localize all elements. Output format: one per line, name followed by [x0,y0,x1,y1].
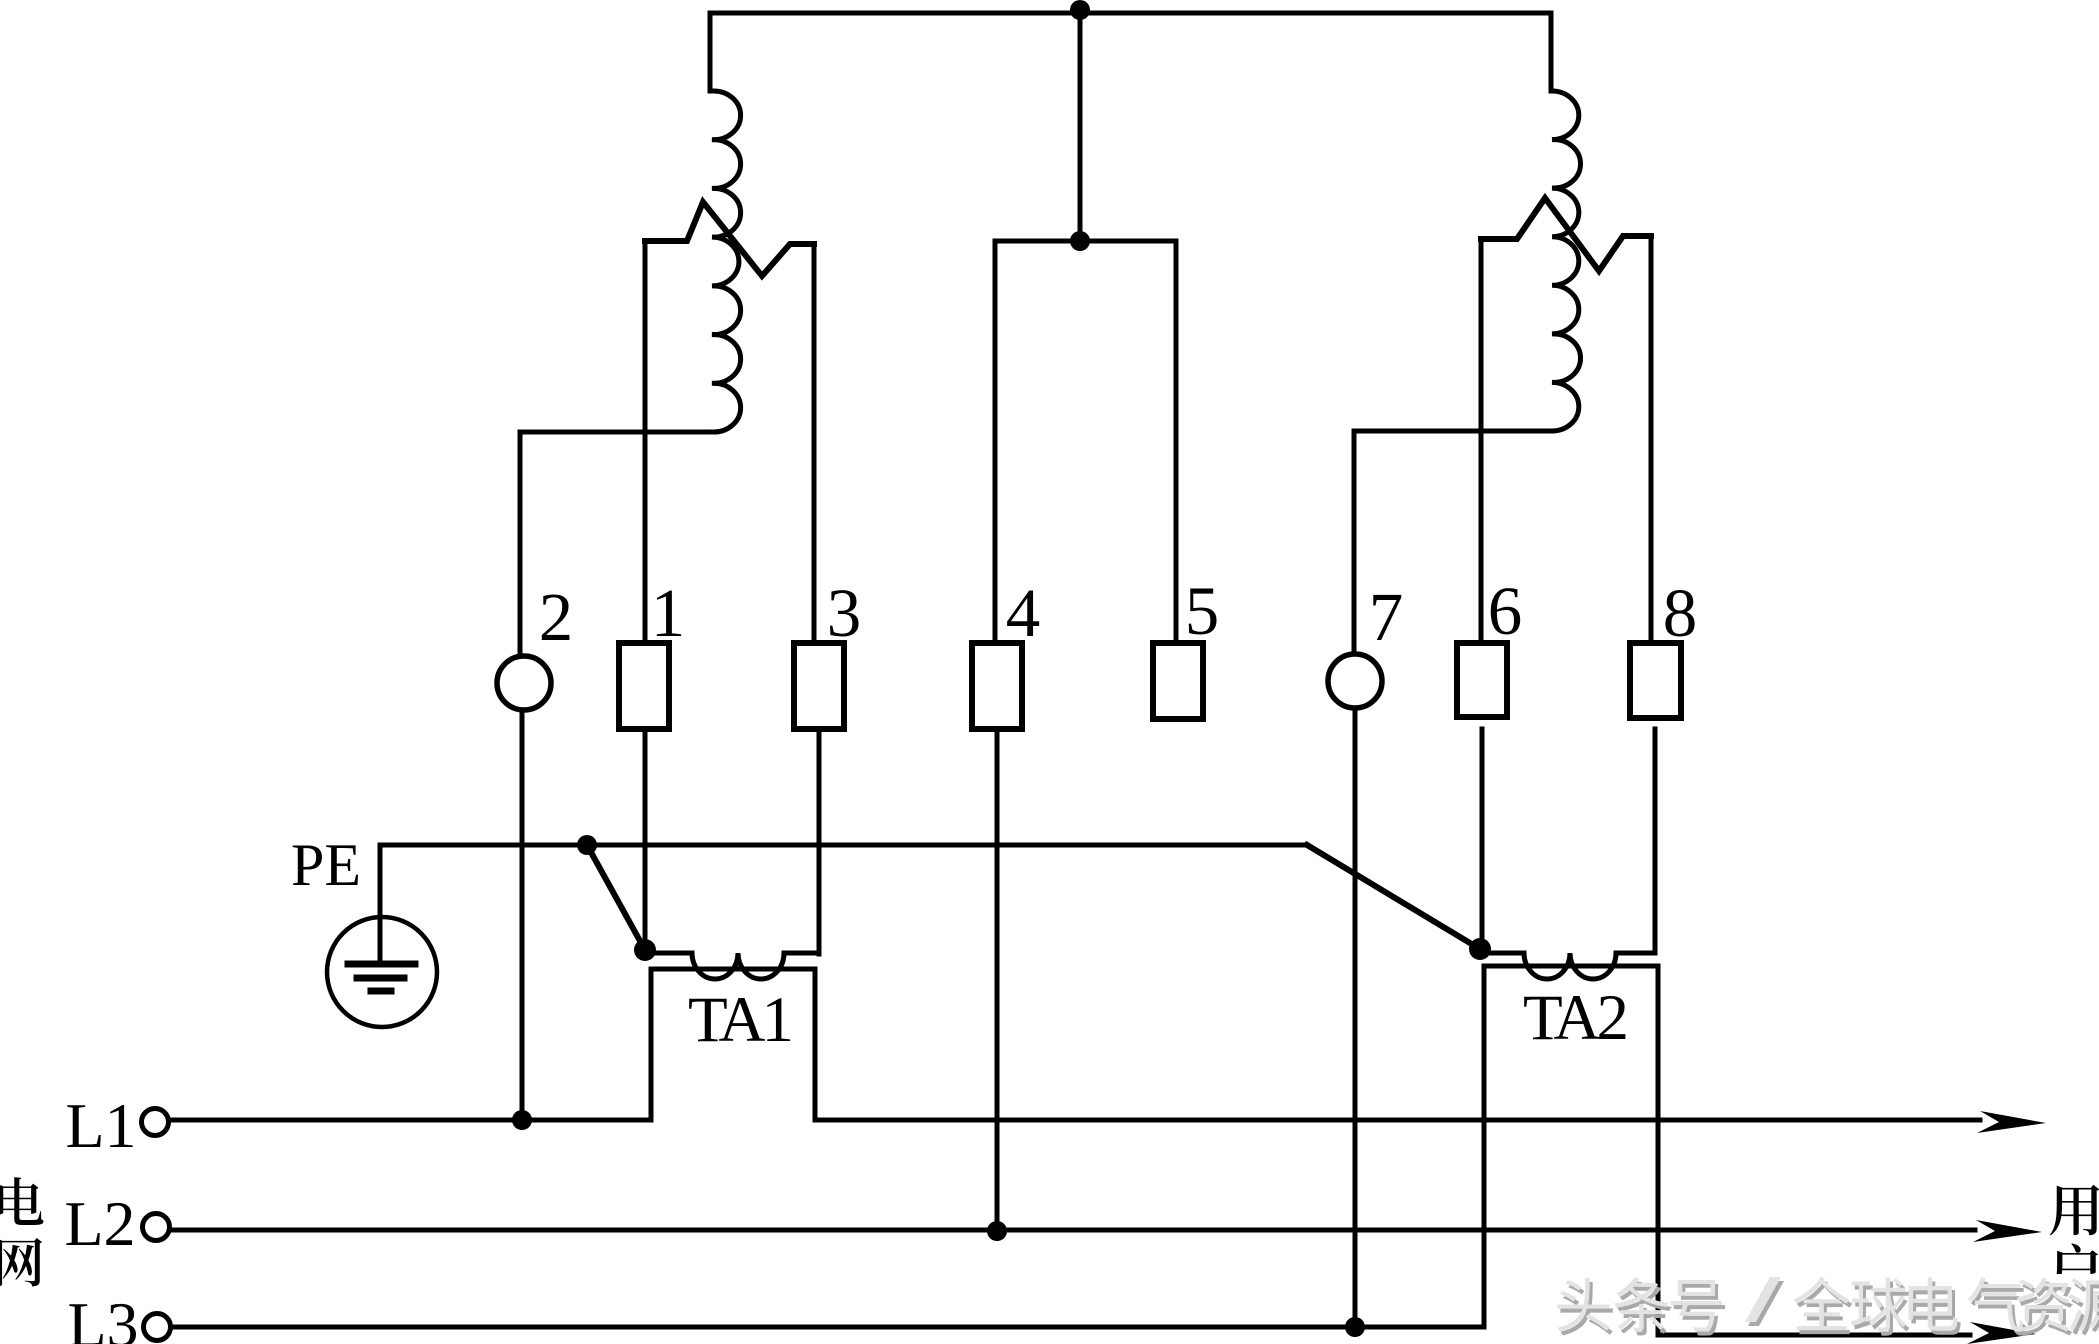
svg-text:L3: L3 [67,1289,138,1344]
wire: terminal 1 riser [643,241,648,643]
ground: earth symbol circle [327,917,437,1027]
meter element 1: coil bottom lead to terminal 2 riser [520,432,712,656]
meter element 2: voltage coil [1552,91,1581,431]
wire: PE diagonal to TA1 secondary [587,845,645,950]
label: 电 (grid) [0,1177,44,1225]
terminal 3 box [794,643,844,729]
svg-text:1: 1 [651,575,686,651]
wire: L2 [170,1228,1975,1233]
terminal 7 (voltage link circle) [1328,654,1382,708]
wire: top bus [710,11,1551,16]
wire: PE bus [380,843,1307,848]
svg-text:3: 3 [827,575,862,651]
node: L2 junction with terminal 4 wire [987,1221,1007,1241]
svg-text:L2: L2 [64,1188,135,1259]
terminal 8 box [1630,643,1681,718]
wire: terminal 1 down to TA1 secondary [643,729,648,950]
wire: center drop to terminal-4/5 bus [1078,13,1083,241]
svg-text:6: 6 [1488,573,1523,649]
meter element 1: voltage coil [712,91,741,432]
wire: L1 left segment [169,1118,651,1123]
svg-text:L1: L1 [65,1090,136,1161]
terminal 6 box [1457,643,1507,717]
wire: terminal 8 riser [1649,237,1654,643]
wire: right coil drop [1549,13,1554,91]
terminal 2 (voltage link circle) [497,656,551,710]
node: TA2 secondary left junction [1469,938,1491,960]
L2 arrowhead [1973,1220,2042,1242]
node: PE bus junction [577,835,597,855]
svg-text:4: 4 [1006,575,1041,651]
wire: left coil drop [708,13,713,91]
wire: terminal 3 down to TA1 secondary [817,729,822,954]
wire: terminal 7 down to L3 [1353,708,1358,1327]
svg-text:7: 7 [1369,579,1404,655]
wire: L1 right segment [815,1118,1980,1123]
TA2 primary loop (L3) [1484,966,1658,1335]
TA2 secondary winding [1480,953,1655,979]
L3 source terminal circle [144,1314,171,1341]
svg-text:TA2: TA2 [1523,982,1625,1054]
wire: L3 left segment [171,1325,1484,1330]
node: center bus junction [1070,231,1090,251]
label: 网 (grid) [0,1238,42,1286]
terminal 1 box [619,643,669,729]
ground: bar 1 [348,961,415,968]
ground: bar 2 [357,975,404,982]
L1 arrowhead [1977,1111,2046,1133]
wire: PE diagonal to TA2 secondary [1307,845,1480,949]
L3 arrowhead [1967,1322,2036,1344]
wire: terminal 5 riser [1174,241,1179,643]
meter element 2: current coil zigzag [1481,198,1651,271]
meter element 1: current coil zigzag [645,202,814,276]
wire: terminal 4/5 bus [995,239,1176,244]
label: 用 (consumer) [2050,1185,2099,1236]
node: top bus junction [1070,0,1090,20]
svg-text:PE: PE [291,832,361,898]
ground: bar 3 [371,988,391,995]
wire: terminal 4 down to L2 [995,729,1000,1231]
wire: terminal 6 riser [1479,239,1484,643]
TA1 secondary winding [645,953,819,979]
watermark: 头条号 / 全球电气资源 [1557,1277,2099,1336]
terminal 5 box [1153,643,1203,719]
wire: L3 right segment [1658,1333,1970,1338]
wire: terminal 3 riser [812,244,817,643]
svg-text:5: 5 [1185,573,1220,649]
svg-text:TA1: TA1 [688,984,790,1056]
wire: terminal 2 down to L1 [520,710,525,1120]
svg-text:2: 2 [539,579,574,655]
ground: PE stem [378,845,383,963]
wire: terminal 4 riser [993,241,998,643]
L1 source terminal circle [142,1109,169,1136]
TA1 primary loop (L1) [651,969,815,1120]
svg-text:8: 8 [1663,575,1698,651]
wire: terminal 8 down to TA2 secondary [1653,729,1658,950]
meter element 2: coil bottom lead to terminal 7 riser [1354,431,1552,654]
node: L1 junction with terminal 2 wire [512,1110,532,1130]
wire: terminal 6 down to TA2 secondary [1480,729,1485,949]
terminal 4 box [972,643,1022,729]
node: L3 junction with terminal 7 wire [1345,1317,1365,1337]
node: TA1 secondary left junction [634,939,656,961]
L2 source terminal circle [143,1214,170,1241]
